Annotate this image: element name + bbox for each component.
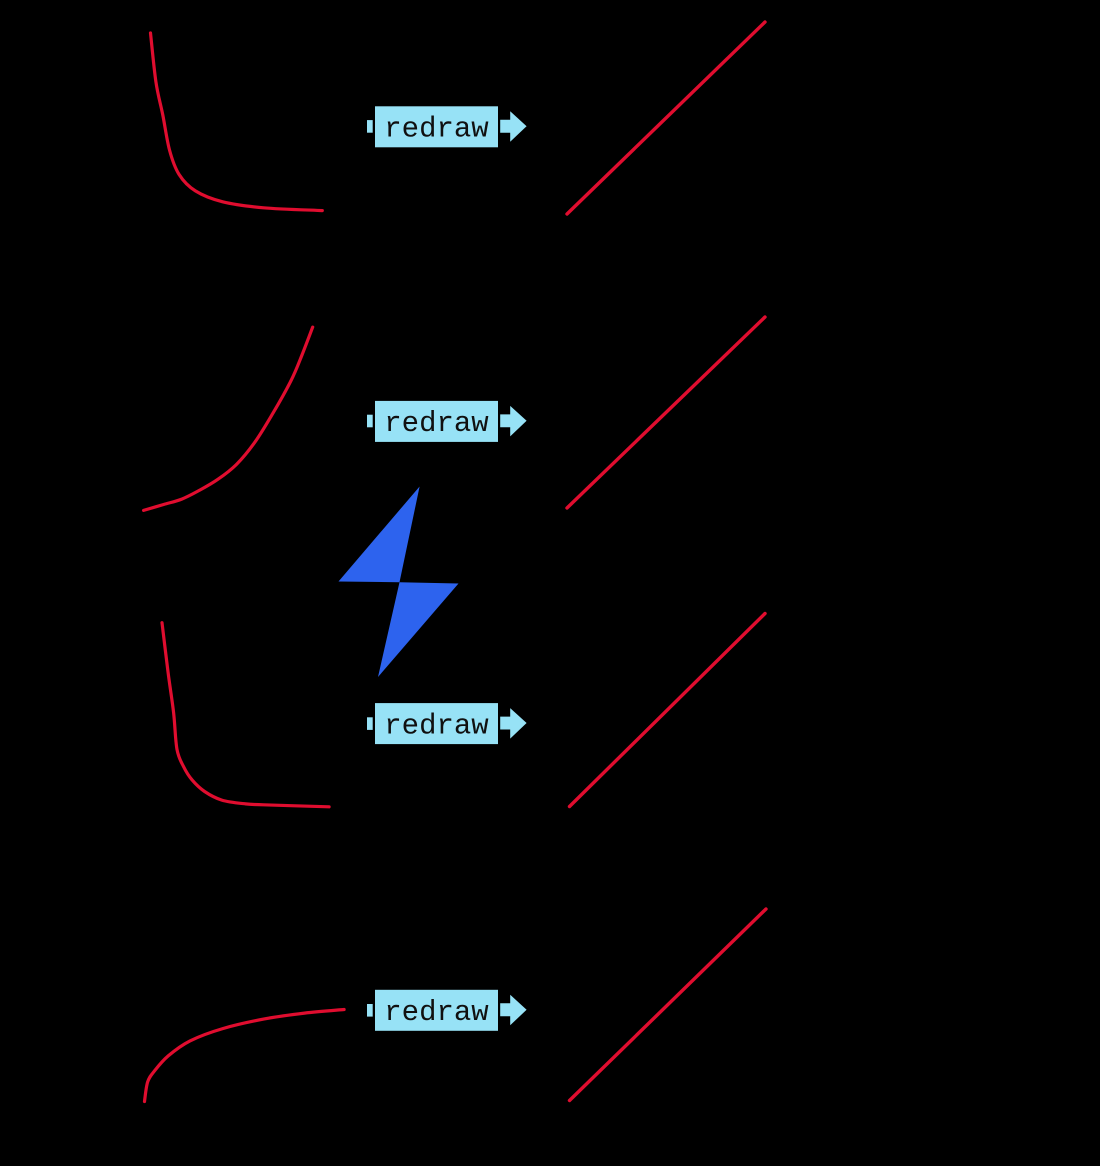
row 1 redraw button box (375, 106, 498, 147)
row 1 left curve (1/x hyperbola) (151, 33, 323, 211)
row 4 redraw button box (375, 990, 498, 1031)
svg-text:redraw: redraw (384, 709, 489, 742)
row 2 left curve (exponential) (144, 327, 313, 510)
row 3 right line (570, 614, 766, 807)
row 1 redraw button nub (367, 120, 373, 133)
row 2 redraw button box (375, 401, 498, 442)
row 2 right line (567, 317, 765, 508)
row 4 redraw button nub (367, 1004, 373, 1017)
lightning bolt (339, 487, 459, 678)
row 4 left curve (sqrt/log) (145, 1010, 345, 1102)
svg-text:redraw: redraw (384, 113, 489, 146)
svg-text:redraw: redraw (384, 996, 489, 1029)
row 4 right line (570, 909, 767, 1101)
row 2 redraw button nub (367, 415, 373, 428)
svg-text:redraw: redraw (384, 407, 489, 440)
row 2 arrow (500, 406, 526, 437)
row 3 redraw button nub (367, 717, 373, 730)
row 3 redraw button box (375, 703, 498, 744)
row 1 arrow (500, 111, 526, 142)
row 3 arrow (500, 708, 526, 739)
row 3 left curve (1/x hyperbola) (162, 623, 329, 807)
row 4 arrow (500, 995, 526, 1026)
row 1 right line (567, 22, 765, 214)
